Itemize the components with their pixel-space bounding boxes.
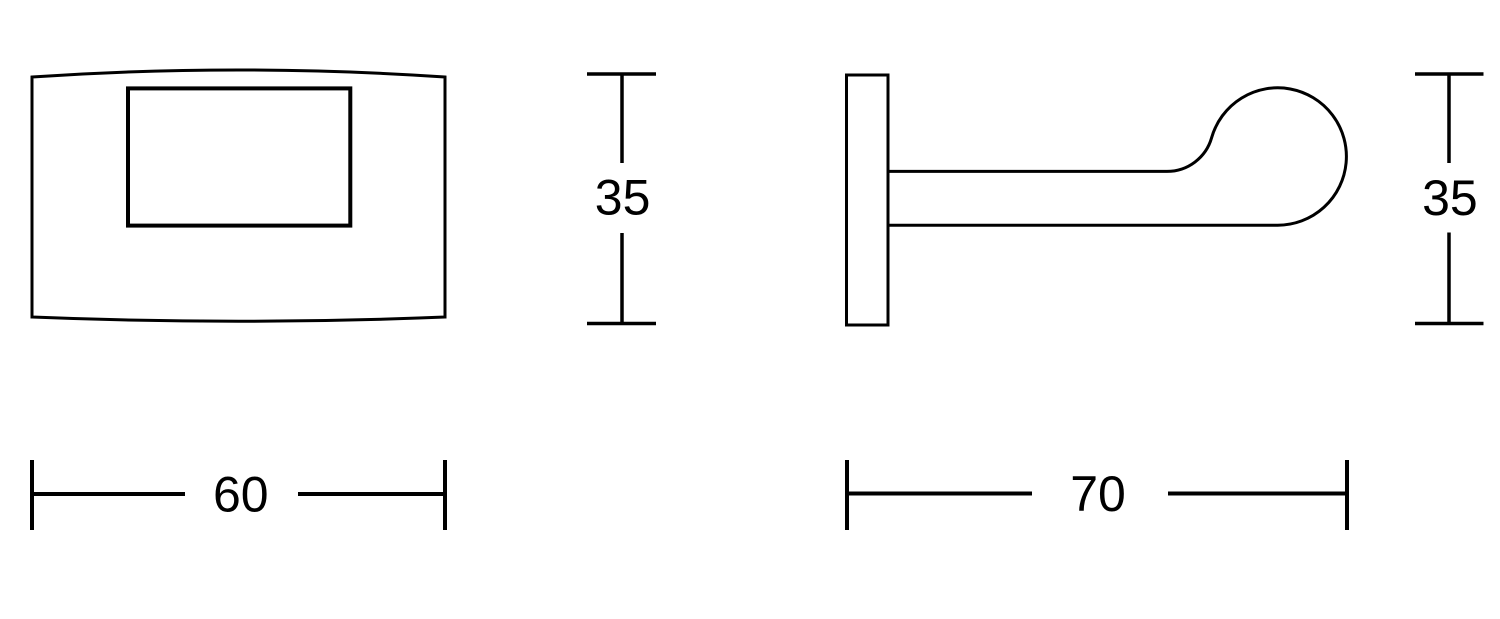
width dimension 60 left tick	[30, 460, 34, 530]
side view arm and hook knob outline	[888, 88, 1346, 225]
width dimension 60 right tick	[443, 460, 447, 530]
width dimension 70 left tick	[845, 460, 849, 530]
svg-text:70: 70	[1070, 466, 1126, 522]
left height dimension bottom tick	[587, 322, 656, 326]
right height dimension upper extension line	[1447, 74, 1451, 163]
svg-text:60: 60	[213, 467, 269, 523]
width dimension 60 right line segment	[298, 492, 445, 496]
svg-text:35: 35	[1422, 170, 1478, 226]
width dimension 60 left line segment	[32, 492, 185, 496]
front view inner rectangle window	[128, 88, 350, 225]
left height dimension lower extension line	[620, 233, 624, 324]
right height dimension bottom tick	[1415, 322, 1484, 326]
width dimension 70 right tick	[1345, 460, 1349, 530]
left height dimension upper extension line	[620, 74, 624, 163]
right height dimension lower extension line	[1447, 233, 1451, 325]
front view outer body outline	[32, 70, 445, 321]
width dimension 70 right line segment	[1168, 492, 1347, 496]
left height dimension top tick	[587, 72, 656, 76]
width dimension 70 left line segment	[847, 492, 1032, 496]
svg-text:35: 35	[595, 170, 651, 226]
right height dimension top tick	[1415, 72, 1484, 76]
side view wall plate	[847, 75, 889, 325]
